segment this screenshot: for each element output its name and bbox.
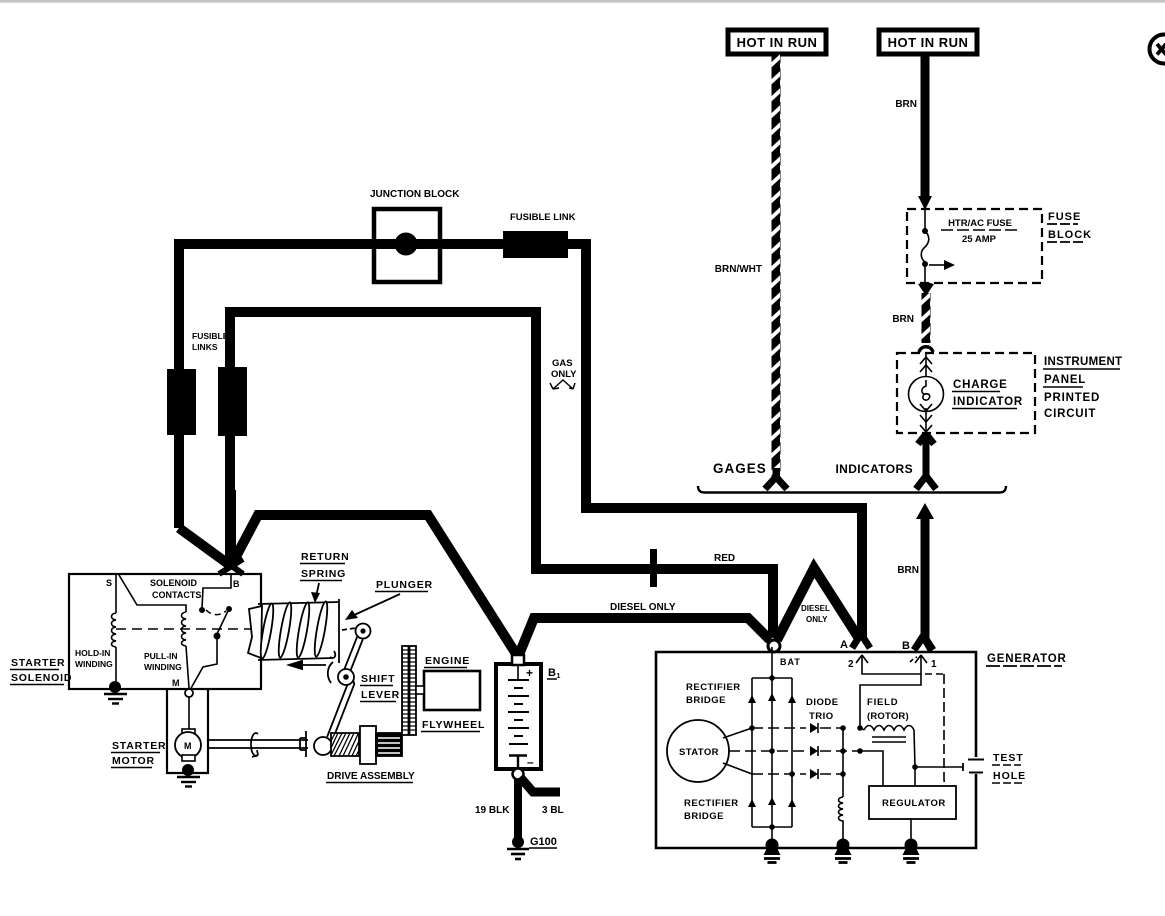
wire DIESEL ONLY battery to generator BAT (518, 618, 770, 657)
terminal 2 arrow (856, 655, 868, 666)
rectifier diodes top (748, 695, 756, 703)
label TEST HOLE (992, 752, 1026, 783)
starter solenoid box (69, 574, 261, 689)
fuse HTR/AC 25A (921, 210, 929, 283)
regulator ground wire (910, 819, 912, 845)
svg-text:DIODE: DIODE (806, 697, 839, 708)
svg-text:+: + (526, 666, 533, 680)
fusible links (two vertical) (167, 369, 196, 435)
shaft rotation symbol (251, 733, 258, 757)
wire field to regulator (860, 751, 883, 786)
wire BRN arrow up from generator B terminal (914, 503, 934, 650)
ground G100 (507, 836, 529, 859)
M terminal circle (185, 689, 193, 697)
generator ground 1 (764, 839, 781, 863)
solenoid B wire to contact (202, 575, 231, 608)
arrow plunger (352, 594, 400, 616)
svg-text:RECTIFIER: RECTIFIER (684, 798, 739, 809)
engine box (424, 671, 480, 710)
bracket under gages/indicators (698, 486, 1006, 493)
wire diesel-only zigzag BAT to A terminal (777, 568, 860, 640)
svg-text:STARTER: STARTER (112, 740, 166, 752)
svg-text:FUSIBLE LINK: FUSIBLE LINK (510, 212, 576, 223)
top grey bar (0, 0, 1165, 3)
svg-text:FLYWHEEL: FLYWHEEL (422, 719, 485, 731)
stator phase wires (723, 728, 862, 774)
svg-text:LINKS: LINKS (192, 342, 218, 352)
svg-text:FIELD: FIELD (867, 697, 898, 708)
svg-text:JUNCTION BLOCK: JUNCTION BLOCK (370, 189, 460, 200)
svg-text:HTR/AC FUSE: HTR/AC FUSE (948, 218, 1012, 229)
diode trio collector (842, 728, 844, 797)
svg-text:TRIO: TRIO (809, 711, 834, 722)
svg-text:A: A (840, 639, 848, 651)
svg-text:B: B (548, 667, 556, 679)
label RETURN SPRING (300, 551, 350, 581)
svg-text:INDICATOR: INDICATOR (953, 396, 1023, 408)
svg-text:BRIDGE: BRIDGE (686, 695, 726, 706)
svg-text:SOLENOID: SOLENOID (11, 672, 72, 684)
junction dots rails (769, 675, 775, 681)
svg-text:B: B (902, 640, 910, 652)
solenoid contacts (199, 607, 205, 613)
pull-in winding coil (182, 612, 187, 646)
svg-text:CIRCUIT: CIRCUIT (1044, 408, 1096, 420)
junction block (374, 209, 440, 282)
svg-text:HOT IN RUN: HOT IN RUN (737, 35, 818, 50)
stator (667, 720, 729, 782)
close icon (1150, 35, 1165, 64)
rectifier diodes bottom (748, 799, 756, 807)
svg-text:S: S (106, 578, 112, 588)
wire solenoid B to battery (179, 490, 518, 657)
battery negative terminal (513, 769, 524, 780)
svg-text:HOLE: HOLE (993, 770, 1026, 782)
motor ground (177, 764, 200, 787)
arrow return spring (316, 583, 319, 597)
generator box (656, 652, 976, 848)
HOT IN RUN box right (879, 30, 977, 54)
wire coil to test hole junction (912, 764, 918, 770)
label STARTER SOLENOID (10, 657, 72, 685)
wire BRN hatched from fuse block to instrument panel (918, 282, 934, 352)
svg-text:PANEL: PANEL (1044, 374, 1086, 386)
svg-text:RETURN: RETURN (301, 551, 350, 563)
terminal fork B (914, 636, 931, 650)
svg-text:DRIVE ASSEMBLY: DRIVE ASSEMBLY (327, 771, 415, 782)
terminal 1 arrow (910, 655, 927, 666)
svg-text:–: – (527, 755, 534, 769)
hold-in winding coil (112, 613, 117, 647)
svg-text:3 BL: 3 BL (542, 805, 564, 816)
motor shaft (208, 740, 308, 748)
svg-text:HOT IN RUN: HOT IN RUN (888, 35, 969, 50)
battery B+ (496, 655, 541, 769)
svg-text:ONLY: ONLY (551, 369, 577, 380)
svg-text:GENERATOR: GENERATOR (987, 653, 1067, 665)
svg-text:25 AMP: 25 AMP (962, 234, 997, 245)
svg-text:PULL-IN: PULL-IN (144, 651, 178, 661)
svg-text:(ROTOR): (ROTOR) (867, 711, 909, 722)
svg-text:BRN: BRN (895, 99, 917, 110)
terminal fork A (852, 634, 870, 648)
generator ground 2 (835, 839, 852, 863)
svg-text:CONTACTS: CONTACTS (152, 590, 201, 600)
svg-text:SPRING: SPRING (301, 568, 346, 580)
wire main feed horizontal through junction block (179, 244, 862, 637)
rectifier rails (752, 647, 792, 844)
label CHARGE INDICATOR (952, 379, 1023, 409)
wire indicator output to bracket (916, 434, 936, 489)
wire BRN/WHT hatched from left HOT IN RUN down to gages bracket (765, 54, 787, 489)
wire 19 BLK to ground (514, 779, 522, 842)
svg-text:G100: G100 (530, 836, 557, 848)
svg-text:SHIFT: SHIFT (361, 673, 395, 685)
svg-text:1: 1 (557, 673, 561, 680)
svg-text:PLUNGER: PLUNGER (376, 579, 433, 591)
svg-text:PRINTED: PRINTED (1044, 392, 1100, 404)
svg-text:ONLY: ONLY (806, 615, 828, 624)
svg-text:BRN/WHT: BRN/WHT (715, 264, 762, 275)
label INSTRUMENT PANEL PRINTED CIRCUIT (1043, 356, 1122, 420)
terminal BAT circle (768, 640, 780, 652)
solenoid internal ground (115, 647, 117, 685)
svg-text:2: 2 (848, 659, 854, 670)
svg-text:RECTIFIER: RECTIFIER (686, 682, 741, 693)
drive assembly (300, 726, 402, 764)
svg-text:WINDING: WINDING (144, 662, 182, 672)
svg-text:HOLD-IN: HOLD-IN (75, 648, 110, 658)
svg-text:GAGES: GAGES (713, 461, 767, 476)
wire BRN from right HOT IN RUN to fuse block (918, 54, 932, 210)
svg-text:DIESEL ONLY: DIESEL ONLY (610, 602, 676, 613)
svg-text:STATOR: STATOR (679, 747, 719, 758)
connector tick on red wire (650, 549, 657, 587)
svg-text:INSTRUMENT: INSTRUMENT (1044, 356, 1122, 368)
arrow plunger travel (289, 661, 326, 669)
svg-text:MOTOR: MOTOR (112, 755, 155, 767)
flywheel gear rack (402, 646, 416, 735)
HOT IN RUN box left (728, 30, 826, 54)
return spring plunger (248, 599, 339, 663)
shift lever (328, 624, 371, 739)
svg-text:BAT: BAT (780, 657, 801, 667)
label STARTER MOTOR (111, 740, 166, 768)
arrow X at solenoid B terminal (219, 557, 243, 574)
svg-text:WINDING: WINDING (75, 659, 113, 669)
svg-text:BRN: BRN (892, 314, 914, 325)
svg-text:STARTER: STARTER (11, 657, 65, 669)
svg-text:GAS: GAS (552, 358, 573, 369)
svg-text:SOLENOID: SOLENOID (150, 578, 198, 588)
svg-text:FUSE: FUSE (1048, 211, 1081, 223)
wire 3 BL branch (520, 777, 560, 792)
resistor (839, 797, 844, 845)
svg-text:M: M (184, 741, 192, 751)
svg-text:B: B (233, 579, 240, 589)
fusible link (horizontal wire) (503, 231, 568, 258)
svg-text:CHARGE: CHARGE (953, 379, 1008, 391)
field feed wires from terminals (860, 666, 921, 727)
generator ground 3 (903, 839, 920, 863)
svg-text:M: M (172, 678, 180, 688)
field coil (864, 726, 914, 731)
svg-text:ENGINE: ENGINE (425, 655, 470, 667)
wire second feed horizontal (230, 312, 773, 637)
svg-text:BRN: BRN (897, 565, 919, 576)
svg-text:BRIDGE: BRIDGE (684, 811, 724, 822)
svg-text:INDICATORS: INDICATORS (835, 462, 913, 476)
svg-text:TEST: TEST (993, 752, 1024, 764)
dashed actuation axis (116, 628, 252, 630)
svg-text:LEVER: LEVER (361, 689, 400, 701)
pull-in to M wire (186, 646, 189, 688)
diode trio diodes (810, 723, 818, 779)
field core bars (872, 736, 906, 738)
test hole symbol (968, 760, 984, 773)
svg-text:DIESEL: DIESEL (801, 604, 830, 613)
regulator box (869, 786, 956, 819)
motor M (175, 697, 201, 761)
fuse arrow (929, 260, 955, 270)
svg-text:FUSIBLE: FUSIBLE (192, 331, 229, 341)
label SHIFT LEVER (360, 673, 400, 702)
charge indicator bulb (909, 354, 944, 432)
instrument panel printed circuit dashed box (897, 353, 1035, 433)
svg-text:REGULATOR: REGULATOR (882, 798, 946, 809)
svg-text:BLOCK: BLOCK (1048, 229, 1092, 241)
fuse block dashed box (907, 209, 1042, 283)
starter motor housing (167, 689, 208, 773)
svg-text:RED: RED (714, 553, 735, 564)
solenoid S wire (119, 575, 186, 612)
svg-text:1: 1 (931, 659, 937, 670)
label FUSE BLOCK (1047, 211, 1092, 242)
svg-text:19 BLK: 19 BLK (475, 805, 510, 816)
